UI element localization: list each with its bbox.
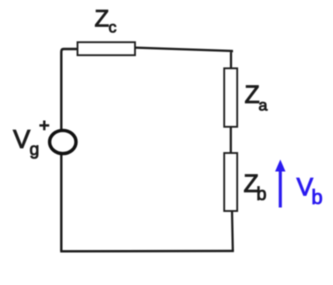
plus sign: [39, 121, 49, 131]
wire below Zb to bottom-right corner: [231, 210, 234, 251]
svg-text:V: V: [13, 124, 31, 154]
arrow Vb: [279, 166, 282, 208]
wire left+top-left corner: [61, 49, 77, 251]
svg-text:g: g: [30, 139, 40, 159]
wire bottom: [60, 250, 234, 253]
svg-text:c: c: [109, 20, 117, 37]
resistor Zc: [78, 42, 136, 55]
resistor Zb: [224, 153, 237, 211]
svg-text:Z: Z: [95, 6, 110, 33]
wire between Za and Zb: [230, 126, 232, 154]
svg-text:b: b: [257, 184, 267, 204]
svg-text:Z: Z: [245, 81, 260, 109]
source Vg circle: [50, 130, 76, 153]
resistor Za: [224, 68, 237, 127]
svg-text:b: b: [312, 187, 323, 209]
svg-text:a: a: [259, 98, 268, 115]
wire top-right from Zc to corner and down to Za: [135, 48, 233, 69]
